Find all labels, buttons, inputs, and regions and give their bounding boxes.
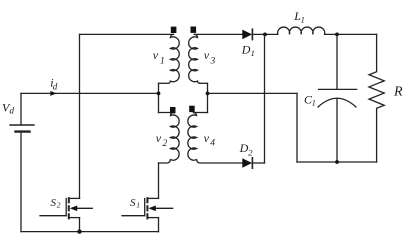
svg-text:D: D: [239, 141, 249, 155]
secondary center-tap bracket: [194, 83, 208, 112]
svg-text:3: 3: [210, 57, 216, 67]
junction C1 top: [335, 33, 339, 37]
diode D1: [242, 29, 252, 39]
junction C1 bottom: [335, 160, 339, 164]
label R: [393, 85, 403, 100]
wire L1 to top-right corner: [325, 33, 377, 35]
dot mark v1: [171, 27, 177, 33]
MOSFET S2: [40, 197, 92, 231]
wire v3 to D1: [194, 33, 242, 35]
label id: [50, 75, 58, 91]
svg-text:d: d: [10, 105, 15, 115]
svg-text:1: 1: [301, 14, 305, 24]
svg-text:R: R: [393, 85, 403, 100]
label Vd: [2, 101, 15, 116]
junction center tap secondary: [206, 92, 210, 96]
svg-text:v: v: [204, 48, 210, 62]
svg-text:S: S: [51, 197, 57, 209]
svg-text:v: v: [204, 131, 210, 145]
bottom rail output: [297, 161, 377, 163]
bottom rail primary: [21, 231, 159, 233]
label v2: [156, 131, 168, 149]
primary center-tap bracket: [159, 83, 174, 112]
svg-text:1: 1: [136, 201, 140, 210]
transformer winding v4: [188, 113, 243, 164]
wire v2 bottom to S1 drain riser: [158, 163, 160, 198]
dot mark v3: [191, 27, 197, 33]
transformer winding v1: [168, 34, 179, 83]
current arrow id: [50, 91, 56, 96]
MOSFET S1: [122, 197, 173, 231]
label v1: [153, 48, 165, 67]
label L1: [293, 9, 305, 24]
label C1: [304, 93, 316, 108]
svg-text:D: D: [241, 42, 251, 56]
junction center tap primary: [157, 92, 161, 96]
junction D1/D2 cathodes: [263, 33, 267, 37]
battery Vd: [10, 93, 34, 231]
svg-text:4: 4: [210, 139, 215, 149]
wire D1 to L1: [252, 33, 277, 35]
wire D2 cathode riser: [252, 162, 264, 164]
svg-text:2: 2: [57, 201, 61, 210]
svg-text:2: 2: [248, 147, 253, 157]
svg-text:2: 2: [163, 139, 168, 149]
svg-text:1: 1: [160, 57, 165, 67]
resistor R: [369, 34, 384, 162]
svg-text:1: 1: [251, 48, 255, 58]
capacitor C1: [318, 34, 357, 162]
wire battery+ to center tap: [21, 92, 159, 94]
label S2: [51, 197, 61, 210]
svg-text:d: d: [53, 81, 58, 91]
wire top rail (S2 drain riser + top wire to v1): [79, 34, 81, 198]
svg-text:S: S: [130, 197, 136, 209]
label D2: [239, 141, 254, 157]
svg-text:1: 1: [312, 97, 316, 107]
svg-text:v: v: [153, 48, 159, 62]
transformer winding v2: [159, 113, 180, 164]
dot mark v4: [189, 106, 195, 112]
label S1: [130, 197, 140, 210]
junction S2 source: [77, 229, 81, 233]
transformer winding v3: [189, 34, 200, 83]
diode D2: [242, 158, 252, 168]
label v3: [204, 48, 216, 67]
dot mark v2: [170, 107, 176, 113]
svg-text:v: v: [156, 131, 162, 145]
wire secondary center tap to output return: [208, 92, 298, 94]
label D1: [241, 42, 255, 58]
inductor L1: [278, 27, 325, 34]
label v4: [204, 131, 216, 149]
